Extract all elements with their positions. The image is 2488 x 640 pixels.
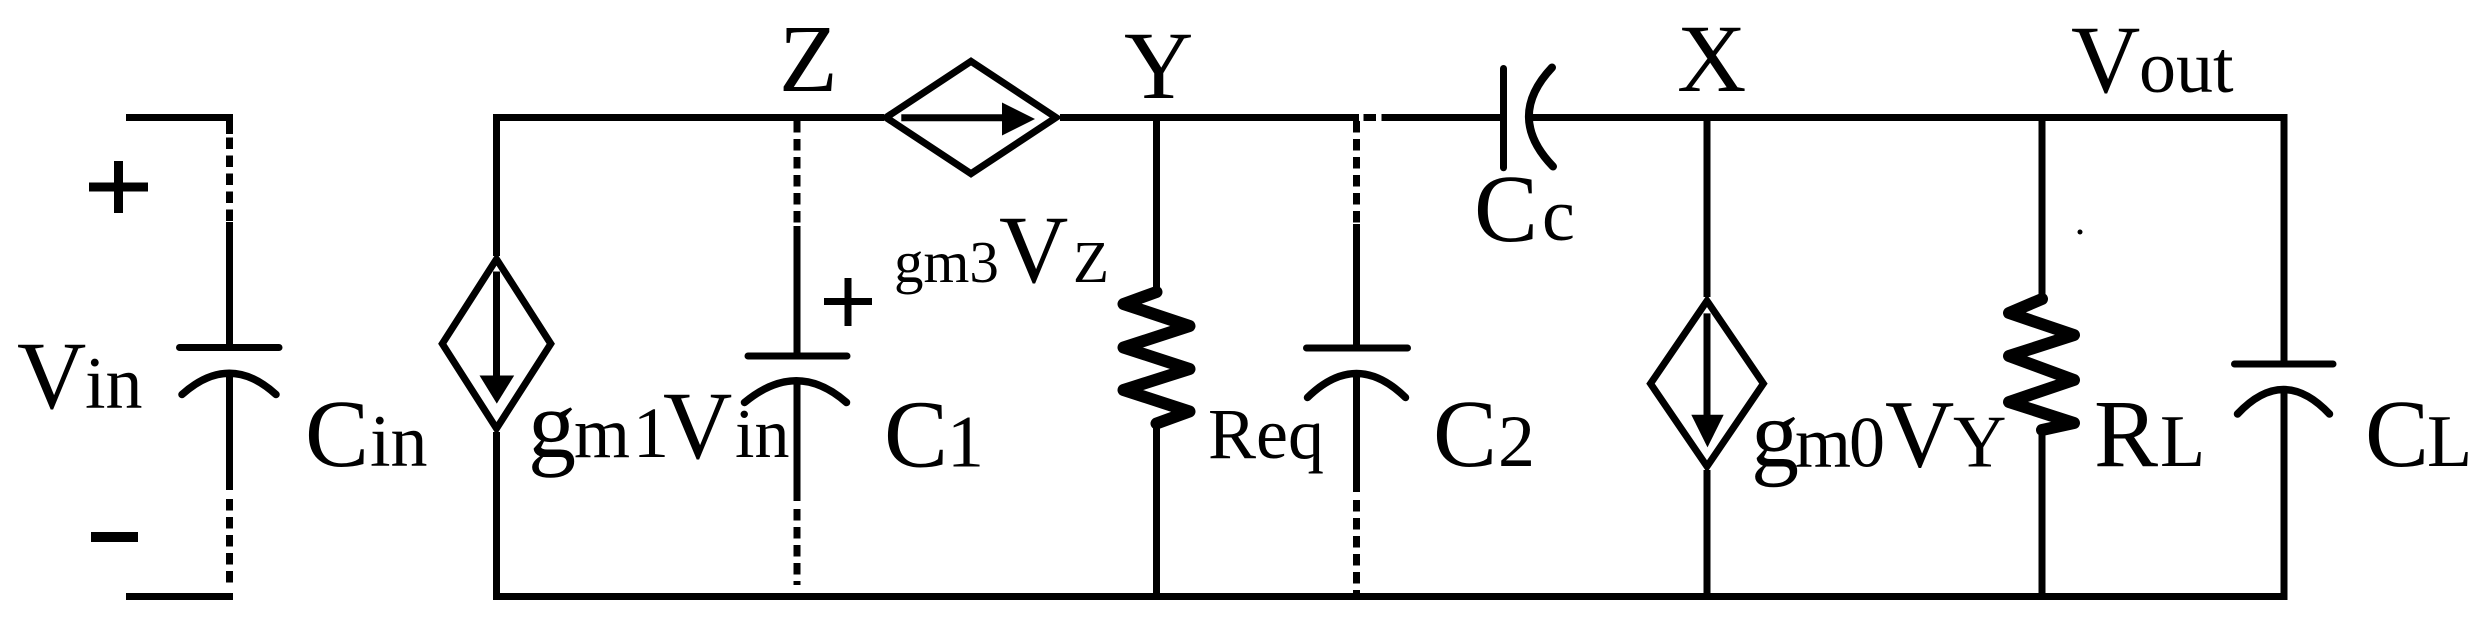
svg-text:Y: Y	[1953, 402, 2006, 484]
svg-text:C: C	[305, 380, 369, 487]
capacitor CL plate	[2235, 361, 2334, 368]
wire right edge lower	[2281, 388, 2288, 600]
svg-text:Y: Y	[1124, 12, 1193, 119]
wire bottom-left Vin port	[126, 593, 233, 600]
svg-text:C: C	[1433, 380, 1497, 487]
capacitor Cc curved plate	[1529, 68, 1553, 167]
wire C2 branch dashed upper	[1353, 121, 1360, 226]
capacitor Cin plate	[180, 344, 280, 351]
gm1 arrow	[480, 272, 515, 404]
wire C2 branch solid to plate	[1353, 224, 1360, 348]
svg-text:in: in	[370, 401, 428, 483]
wire RL branch upper	[2039, 114, 2046, 297]
current source gm3VZ diamond	[886, 61, 1056, 173]
wire C2 branch dashed lower	[1353, 500, 1360, 593]
wire X branch lower	[1704, 470, 1711, 600]
current source gm1Vin diamond	[442, 259, 551, 428]
svg-text:c: c	[1542, 175, 1575, 257]
wire Vin corner stub	[226, 114, 233, 134]
capacitor C2 plate	[1307, 345, 1408, 352]
wire X branch upper	[1704, 121, 1711, 297]
svg-text:C: C	[884, 381, 948, 488]
wire main top B (gm3 right tip to node C2)	[1060, 114, 1359, 121]
capacitor C1 arc	[745, 381, 847, 403]
wire main top C (to Cc plate)	[1382, 114, 1502, 121]
svg-text:in: in	[85, 343, 143, 425]
capacitor C1 plate	[748, 353, 847, 360]
svg-text:0: 0	[1849, 403, 1885, 483]
wire gm1 branch lower	[493, 432, 500, 600]
svg-text:C: C	[2365, 380, 2429, 487]
svg-text:Z: Z	[779, 5, 838, 112]
wire Vin dashed upper	[226, 138, 233, 225]
current source gm0VY diamond	[1651, 301, 1764, 467]
stray dot artifact	[2078, 230, 2083, 235]
svg-text:C: C	[1474, 155, 1538, 262]
svg-text:m: m	[574, 393, 630, 473]
wire Y branch lower	[1153, 427, 1160, 600]
svg-text:V: V	[1885, 381, 1954, 488]
svg-text:g: g	[528, 371, 576, 478]
wire gm1 branch upper	[493, 114, 500, 256]
wire main top D (Cc to Vout corner)	[1528, 114, 2288, 121]
wire right edge upper	[2281, 114, 2288, 364]
svg-text:V: V	[2071, 6, 2140, 113]
wire C1 lower lead	[794, 381, 801, 501]
svg-text:g: g	[1751, 381, 1799, 488]
resistor Req zigzag	[1124, 292, 1190, 424]
svg-text:X: X	[1677, 5, 1746, 112]
svg-text:m: m	[1795, 403, 1851, 483]
svg-text:L: L	[2160, 401, 2205, 483]
svg-text:V: V	[663, 372, 732, 479]
svg-text:2: 2	[1498, 401, 1535, 483]
gm3 arrow	[901, 103, 1035, 136]
wire C1 branch dashed upper	[794, 121, 801, 228]
wire main bottom	[493, 593, 2288, 600]
capacitor CL arc	[2238, 390, 2330, 415]
svg-text:R: R	[2094, 380, 2158, 487]
svg-text:1: 1	[947, 402, 984, 484]
wire C2 lower lead	[1353, 373, 1360, 492]
wire Vin solid to Cin	[226, 222, 233, 347]
svg-text:in: in	[735, 396, 789, 473]
capacitor C2 arc	[1308, 374, 1406, 398]
plus sign at C1 (node Z polarity)	[824, 278, 872, 326]
capacitor Cin arc	[182, 373, 276, 394]
gm0 arrow	[1691, 313, 1723, 447]
wire Cin lower lead	[226, 372, 233, 490]
capacitor Cc left plate	[1500, 69, 1507, 168]
svg-text:L: L	[2427, 401, 2472, 483]
wire RL branch lower	[2039, 435, 2046, 600]
wire main top A (gm1 to gm3 left tip)	[493, 114, 884, 121]
wire top short dash at C2 junction	[1364, 114, 1377, 121]
svg-text:Req: Req	[1208, 394, 1324, 474]
minus sign Vin port	[91, 532, 138, 542]
plus sign Vin port	[89, 161, 148, 213]
wire C1 branch dashed lower	[794, 509, 801, 585]
wire top-left Vin port	[126, 114, 233, 121]
svg-text:Z: Z	[1073, 229, 1109, 295]
svg-text:V: V	[17, 322, 86, 429]
resistor RL zigzag	[2009, 299, 2074, 430]
wire Y branch upper	[1153, 121, 1160, 292]
svg-text:gm3: gm3	[894, 229, 999, 295]
wire C1 branch solid to plate	[794, 226, 801, 356]
svg-text:out: out	[2139, 27, 2234, 109]
wire Vin dashed lower	[226, 499, 233, 588]
svg-text:V: V	[999, 196, 1068, 303]
